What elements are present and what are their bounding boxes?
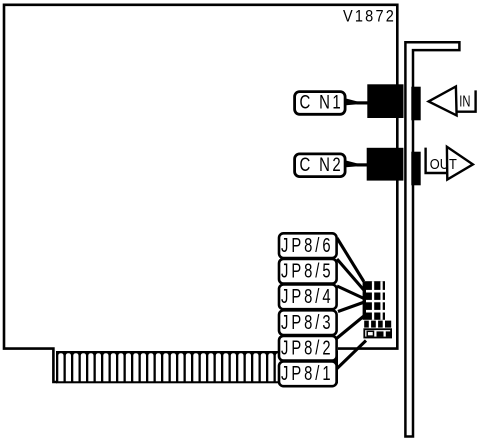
jumper label JP8/2 <box>279 336 337 361</box>
svg-text:JP8/5: JP8/5 <box>281 261 334 283</box>
wire JP8/6 leader <box>337 238 364 282</box>
jumper label JP8/4 <box>279 285 337 310</box>
connector CN1 body <box>367 84 403 118</box>
svg-text:JP8/6: JP8/6 <box>281 235 334 257</box>
svg-text:JP8/3: JP8/3 <box>281 312 334 334</box>
jumper header JP8 <box>363 281 385 320</box>
jumper label JP8/5 <box>279 259 337 284</box>
edge connector fingers <box>56 351 338 383</box>
svg-text:JP8/2: JP8/2 <box>281 338 334 360</box>
svg-text:JP8/1: JP8/1 <box>281 363 334 385</box>
jumper block bottom <box>364 329 391 337</box>
wire JP8/1 leader <box>336 341 366 370</box>
wire JP8/2 leader <box>337 316 365 339</box>
connector label CN1 <box>295 92 346 115</box>
wire JP8/4 leader <box>337 286 364 299</box>
svg-text:IN: IN <box>459 94 470 111</box>
connector CN1 jack <box>411 87 420 121</box>
connector CN2 body <box>367 148 404 181</box>
wire JP8/3 leader <box>338 302 365 312</box>
wire CN2 leader <box>346 161 368 168</box>
svg-text:OUT: OUT <box>430 156 457 173</box>
card outline <box>4 5 397 382</box>
jumper label JP8/1 <box>279 362 337 387</box>
svg-text:C N2: C N2 <box>300 155 344 176</box>
wire CN1 leader <box>346 99 368 106</box>
jumper label JP8/3 <box>279 310 337 335</box>
arrow IN <box>429 87 476 116</box>
connector label CN2 <box>295 154 346 177</box>
svg-text:JP8/4: JP8/4 <box>281 286 334 308</box>
svg-text:C N1: C N1 <box>300 93 344 114</box>
svg-text:V1872: V1872 <box>343 8 396 26</box>
connector CN2 jack <box>411 152 420 186</box>
jumper header pin row <box>364 321 391 328</box>
jumper label JP8/6 <box>279 233 337 258</box>
wire JP8/5 leader <box>337 259 364 290</box>
mounting bracket <box>405 42 459 436</box>
arrow OUT <box>426 147 473 180</box>
